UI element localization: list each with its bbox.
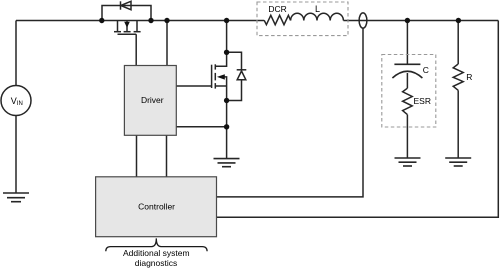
svg-text:R: R (466, 72, 472, 82)
svg-text:diagnostics: diagnostics (135, 258, 178, 268)
svg-text:ESR: ESR (414, 96, 431, 106)
svg-text:L: L (315, 4, 320, 14)
svg-text:Additional system: Additional system (123, 248, 190, 258)
svg-text:Driver: Driver (141, 95, 164, 105)
svg-text:Controller: Controller (138, 202, 175, 212)
svg-text:C: C (423, 65, 429, 75)
svg-text:DCR: DCR (268, 4, 286, 14)
